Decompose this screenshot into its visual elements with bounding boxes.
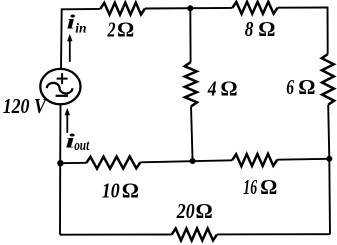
svg-text:16: 16 bbox=[243, 175, 257, 199]
node junction right-middle bbox=[326, 156, 332, 162]
resistor 20 ohm bbox=[172, 228, 217, 240]
resistor 10 ohm bbox=[86, 156, 140, 168]
svg-text:8: 8 bbox=[245, 17, 254, 41]
resistor 2 ohm bbox=[100, 3, 145, 15]
source V1 sine wave bbox=[47, 83, 73, 94]
wire right lower segment bbox=[328, 159, 331, 234]
svg-text:Ω: Ω bbox=[220, 77, 237, 101]
svg-text:6: 6 bbox=[286, 75, 294, 99]
node junction left-middle bbox=[57, 160, 63, 166]
svg-text:out: out bbox=[74, 138, 90, 154]
svg-text:20: 20 bbox=[176, 199, 195, 223]
resistor 4 ohm bbox=[185, 62, 197, 106]
wire middle-center segment bbox=[140, 160, 232, 162]
wire bottom-right segment bbox=[217, 233, 330, 235]
svg-text:120 V: 120 V bbox=[3, 94, 48, 118]
wire top-right segment bbox=[278, 7, 328, 9]
svg-text:2: 2 bbox=[107, 17, 116, 41]
node junction top (4 ohm branch) bbox=[187, 5, 193, 11]
wire right upper segment bbox=[327, 7, 329, 55]
svg-text:10: 10 bbox=[102, 179, 120, 203]
wire middle vertical lower (4 ohm branch) bbox=[191, 106, 193, 161]
wire top-middle segment bbox=[145, 7, 232, 10]
wire left top segment bbox=[60, 8, 63, 69]
svg-text:in: in bbox=[75, 21, 86, 36]
current arrow i_in bbox=[69, 41, 71, 62]
source V1 circle bbox=[40, 69, 80, 104]
svg-text:Ω: Ω bbox=[122, 179, 139, 203]
node junction middle (4 ohm bottom) bbox=[190, 158, 196, 164]
wire middle vertical upper (4 ohm branch) bbox=[189, 8, 191, 62]
wire bottom-left segment bbox=[60, 234, 172, 236]
svg-text:4: 4 bbox=[207, 77, 217, 101]
svg-text:Ω: Ω bbox=[117, 17, 134, 41]
wire top-left segment bbox=[62, 8, 101, 10]
resistor 16 ohm bbox=[232, 154, 277, 166]
source V1 plus sign bbox=[57, 78, 68, 80]
resistor 6 ohm bbox=[322, 54, 335, 104]
svg-text:Ω: Ω bbox=[196, 199, 213, 223]
wire left below source bbox=[59, 104, 61, 163]
current arrow i_out bbox=[66, 115, 68, 133]
svg-text:Ω: Ω bbox=[258, 17, 275, 41]
resistor 8 ohm bbox=[232, 2, 277, 14]
wire left lower segment bbox=[59, 163, 61, 235]
svg-text:Ω: Ω bbox=[260, 175, 277, 199]
wire right middle segment bbox=[328, 105, 329, 159]
wire middle-right segment bbox=[277, 158, 329, 161]
source V1 minus sign bbox=[56, 95, 68, 97]
svg-text:Ω: Ω bbox=[298, 75, 315, 99]
wire middle-left segment bbox=[60, 162, 86, 164]
